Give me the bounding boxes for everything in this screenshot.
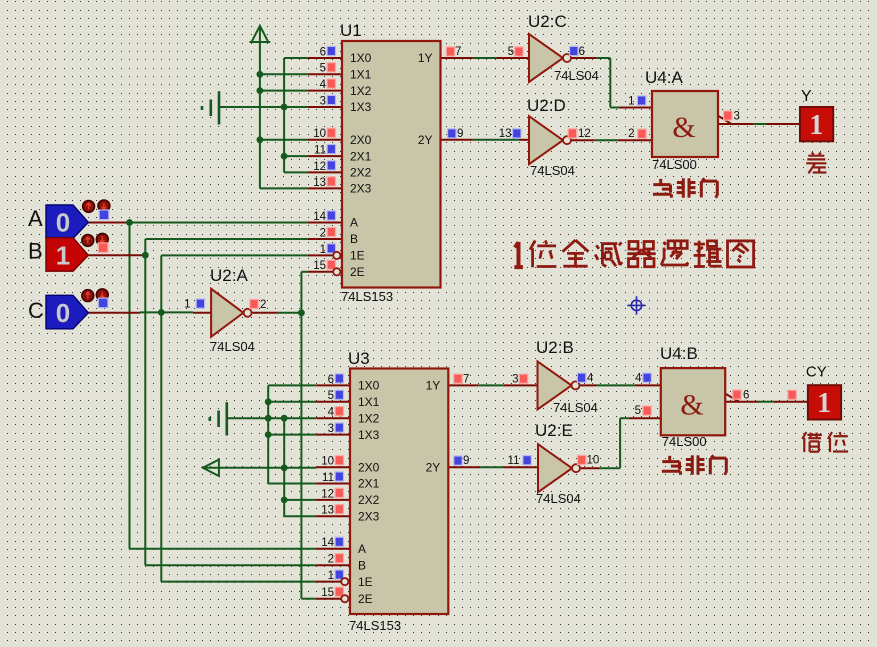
svg-text:4: 4	[587, 372, 594, 384]
svg-text:5: 5	[508, 46, 514, 58]
svg-text:1: 1	[56, 241, 70, 271]
svg-text:14: 14	[321, 537, 334, 549]
svg-text:A: A	[358, 542, 366, 556]
svg-text:1X1: 1X1	[350, 68, 372, 82]
svg-text:9: 9	[463, 455, 469, 467]
svg-text:2Y: 2Y	[418, 133, 433, 147]
svg-text:1X2: 1X2	[350, 84, 372, 98]
svg-text:74LS04: 74LS04	[554, 68, 599, 83]
svg-text:2: 2	[328, 554, 334, 566]
svg-text:6: 6	[579, 46, 585, 58]
svg-text:1Y: 1Y	[426, 379, 441, 393]
svg-text:&: &	[680, 389, 703, 422]
svg-text:4: 4	[320, 79, 327, 91]
svg-text:1: 1	[817, 388, 831, 419]
svg-text:13: 13	[313, 177, 326, 189]
svg-text:5: 5	[328, 390, 334, 402]
svg-text:1E: 1E	[350, 249, 365, 263]
svg-text:11: 11	[322, 472, 334, 484]
svg-text:2X1: 2X1	[350, 149, 372, 163]
svg-text:12: 12	[578, 128, 591, 140]
svg-text:2X1: 2X1	[358, 477, 380, 491]
svg-text:5: 5	[320, 63, 326, 75]
svg-text:U3: U3	[348, 349, 370, 368]
svg-text:U2:E: U2:E	[535, 421, 573, 440]
svg-text:10: 10	[587, 455, 600, 467]
svg-text:5: 5	[635, 405, 641, 417]
svg-text:6: 6	[320, 46, 326, 58]
svg-text:2: 2	[260, 299, 266, 311]
svg-text:2Y: 2Y	[426, 461, 441, 475]
svg-text:74LS153: 74LS153	[341, 289, 393, 304]
svg-text:B: B	[350, 232, 358, 246]
svg-text:12: 12	[321, 488, 334, 500]
svg-text:3: 3	[320, 95, 326, 107]
svg-text:A: A	[28, 206, 43, 231]
svg-text:4: 4	[635, 372, 642, 384]
svg-text:C: C	[28, 298, 44, 323]
svg-text:U2:B: U2:B	[536, 338, 574, 357]
svg-text:3: 3	[328, 423, 334, 435]
svg-text:12: 12	[313, 161, 326, 173]
svg-text:Y: Y	[801, 88, 812, 105]
svg-text:11: 11	[314, 145, 326, 157]
svg-text:2E: 2E	[358, 592, 373, 606]
svg-text:1: 1	[328, 570, 334, 582]
svg-text:74LS00: 74LS00	[662, 434, 707, 449]
svg-text:0: 0	[56, 208, 70, 238]
svg-text:3: 3	[734, 110, 740, 122]
svg-text:U1: U1	[340, 21, 362, 40]
svg-text:U4:B: U4:B	[660, 344, 698, 363]
svg-text:74LS04: 74LS04	[530, 163, 575, 178]
svg-text:14: 14	[313, 211, 326, 223]
svg-text:15: 15	[321, 587, 334, 599]
svg-text:U2:D: U2:D	[527, 96, 566, 115]
svg-text:1X3: 1X3	[350, 100, 372, 114]
svg-text:13: 13	[499, 128, 512, 140]
svg-text:2X0: 2X0	[358, 461, 380, 475]
svg-text:74LS04: 74LS04	[210, 339, 255, 354]
svg-text:2X0: 2X0	[350, 133, 372, 147]
svg-text:B: B	[358, 558, 366, 572]
svg-text:13: 13	[321, 505, 334, 517]
svg-text:A: A	[350, 216, 358, 230]
svg-text:6: 6	[743, 390, 749, 402]
svg-text:74LS153: 74LS153	[349, 618, 401, 633]
svg-text:10: 10	[321, 456, 334, 468]
svg-text:74LS00: 74LS00	[652, 157, 697, 172]
svg-text:74LS04: 74LS04	[536, 491, 581, 506]
svg-text:6: 6	[328, 374, 334, 386]
svg-text:2X3: 2X3	[358, 509, 380, 523]
svg-text:1E: 1E	[358, 575, 373, 589]
svg-text:2E: 2E	[350, 265, 365, 279]
svg-text:U4:A: U4:A	[645, 68, 683, 87]
svg-text:7: 7	[455, 46, 461, 58]
svg-text:0: 0	[56, 298, 70, 328]
svg-text:1X1: 1X1	[358, 395, 380, 409]
svg-text:4: 4	[328, 407, 335, 419]
svg-text:2: 2	[628, 128, 634, 140]
svg-text:10: 10	[313, 128, 326, 140]
svg-text:2: 2	[320, 227, 326, 239]
svg-text:1: 1	[184, 299, 190, 311]
svg-text:11: 11	[508, 455, 520, 467]
svg-text:CY: CY	[806, 364, 827, 381]
svg-text:1: 1	[628, 96, 634, 108]
svg-text:&: &	[672, 111, 695, 144]
svg-text:1X0: 1X0	[358, 379, 380, 393]
svg-text:1X0: 1X0	[350, 51, 372, 65]
svg-text:7: 7	[463, 373, 469, 385]
svg-text:1Y: 1Y	[418, 51, 433, 65]
svg-text:2X2: 2X2	[350, 166, 372, 180]
svg-text:1X2: 1X2	[358, 411, 380, 425]
svg-text:2X3: 2X3	[350, 182, 372, 196]
svg-text:15: 15	[313, 260, 326, 272]
svg-text:B: B	[28, 239, 43, 264]
svg-text:U2:C: U2:C	[528, 12, 567, 31]
svg-text:1X3: 1X3	[358, 428, 380, 442]
svg-text:9: 9	[457, 128, 463, 140]
svg-text:3: 3	[512, 373, 518, 385]
svg-text:1: 1	[809, 110, 823, 141]
svg-text:2X2: 2X2	[358, 493, 380, 507]
svg-text:74LS04: 74LS04	[553, 400, 598, 415]
svg-text:U2:A: U2:A	[210, 266, 248, 285]
svg-text:1: 1	[320, 244, 326, 256]
